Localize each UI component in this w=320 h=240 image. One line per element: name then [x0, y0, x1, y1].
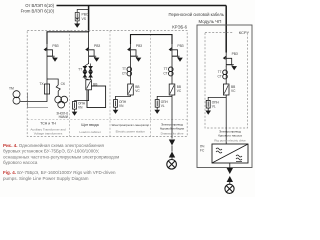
cabinet outline	[87, 86, 106, 108]
disconnector QS5 (РВЗ) module	[223, 53, 237, 71]
svg-text:Переносной силовой кабель: Переносной силовой кабель	[168, 12, 224, 17]
svg-text:Drawworks drive: Drawworks drive	[161, 132, 184, 136]
label: РВО / VS	[82, 13, 89, 21]
transformer T1 (ТМ)	[13, 91, 20, 104]
plug contacts X1 (withdrawable)	[83, 64, 92, 78]
breaker Q4 (ВВ)	[223, 84, 229, 95]
svg-text:Щит ввода: Щит ввода	[81, 123, 98, 127]
arrester FV4 (ОПН)	[155, 100, 159, 108]
wire: section 2 drop continuation	[88, 32, 90, 44]
disconnector QS3 (РВЗ) section 3	[127, 44, 141, 62]
wire: rejoin	[85, 77, 89, 79]
disconnector QS4 (РВЗ) section 4	[169, 44, 183, 62]
svg-text:РВЗ: РВЗ	[94, 44, 100, 48]
label: ПЧ FC	[200, 145, 205, 153]
svg-text:СК: СК	[61, 82, 65, 86]
motor M2 (mud pump)	[225, 184, 234, 193]
wire: label zone separator	[27, 119, 187, 121]
ground: arrester FV4	[154, 107, 160, 114]
label: ТТ CT	[163, 67, 167, 75]
ground: arrester FV3	[113, 107, 119, 114]
svg-text:Voltage transformers: Voltage transformers	[34, 132, 63, 136]
arrester FV1 (РВО/VS) on bus tap	[75, 10, 88, 21]
svg-text:ТТ: ТТ	[78, 67, 82, 71]
label: ОПН VN	[78, 102, 86, 110]
wire: section separator 3	[150, 31, 152, 137]
disconnector QS1 (РВЗ) section 1	[44, 44, 58, 62]
svg-text:оснащенных частотно-регулируем: оснащенных частотно-регулируемым электро…	[3, 154, 119, 159]
ground: arrester FV1 ground	[74, 21, 80, 28]
svg-text:VC: VC	[177, 89, 182, 93]
label: ОПН VL	[212, 101, 220, 109]
label: ВВ VC	[135, 85, 140, 93]
label: ТТ CT	[122, 67, 126, 75]
arrester FV2 (ОПН)	[73, 102, 77, 110]
current transformer TA3 (ТТ/СТ)	[223, 70, 228, 79]
ground: arrester FV2	[72, 109, 78, 116]
svg-text:ТТ: ТТ	[164, 67, 168, 71]
connector X2 (plug pair)	[169, 140, 175, 160]
svg-text:VC: VC	[231, 89, 236, 93]
svg-text:ТМ: ТМ	[9, 87, 14, 91]
wire: output and arrester branch	[157, 96, 172, 99]
wire: vertical drop to switchgear	[88, 6, 90, 33]
svg-text:КСРУ: КСРУ	[239, 30, 250, 35]
node: switchgear dashed enclosure	[27, 31, 187, 137]
svg-text:РВЗ: РВЗ	[177, 44, 183, 48]
label: ТТ CT	[218, 70, 222, 78]
svg-text:СТ: СТ	[218, 74, 222, 78]
fuse FU2 (СК)	[56, 85, 60, 96]
wire: fuse output to TM transformer	[20, 94, 47, 102]
converter U1 (ПЧ/FC VFD)	[212, 144, 248, 163]
wire: section 4 column	[171, 59, 173, 85]
svg-text:КРЭБ-6: КРЭБ-6	[172, 25, 187, 30]
svg-text:pumps. Single Line Power Suppl: pumps. Single Line Power Supply Diagram	[3, 176, 89, 181]
breaker Q3 (ВВ)	[169, 84, 175, 95]
wire: section 2 column upper	[88, 59, 90, 65]
wire: section separator 2	[109, 31, 111, 137]
wire: bus segment feeding sections 1-2	[47, 32, 89, 44]
wire: section separator 1	[69, 31, 71, 137]
svg-text:РВЗ: РВЗ	[52, 44, 58, 48]
svg-text:Load-in cabinet: Load-in cabinet	[79, 130, 100, 134]
svg-text:СТ: СТ	[122, 71, 126, 75]
svg-text:Electric power station: Electric power station	[116, 130, 146, 134]
fuse FU1 (ТХ)	[44, 84, 49, 94]
svg-text:СТ: СТ	[163, 71, 167, 75]
wire: section 1 column	[46, 59, 48, 85]
wire: arrester branch	[208, 97, 226, 100]
caption	[3, 142, 119, 181]
wire: VFD output	[229, 163, 231, 169]
svg-text:VN: VN	[119, 104, 124, 108]
connector X3 (plug pair)	[227, 168, 233, 185]
svg-text:VL: VL	[212, 105, 216, 109]
node: КСРУ dashed enclosure	[205, 33, 248, 129]
current transformer TA2 (ТТ/СТ)	[169, 67, 174, 76]
wire: auxiliary secondary run	[28, 93, 49, 108]
current transformer TA1 (ТТ/СТ)	[127, 67, 132, 76]
svg-text:НАМИ: НАМИ	[59, 115, 69, 119]
svg-text:бурового насоса: бурового насоса	[3, 160, 38, 165]
svg-text:буровых установок БУ-75БрЭ, БУ: буровых установок БУ-75БрЭ, БУ-1600/1000…	[3, 149, 99, 154]
ground: arrester FV5	[205, 108, 211, 115]
wire: section 4 output down	[171, 95, 173, 139]
disconnector QS2 (РВЗ) section 2	[85, 44, 99, 62]
voltage transformer TV1 (ЗНОЛ-6 НАМИ)	[55, 96, 68, 108]
svg-text:VS: VS	[82, 17, 87, 21]
svg-text:From ВЛЭП 6(10): From ВЛЭП 6(10)	[21, 9, 55, 14]
svg-text:РВЗ: РВЗ	[232, 52, 238, 56]
svg-text:VC: VC	[135, 89, 140, 93]
wire: bus segment feeding sections 3-4	[131, 35, 173, 44]
svg-text:бурового насоса: бурового насоса	[218, 133, 242, 137]
svg-text:буровой лебедки: буровой лебедки	[160, 126, 185, 130]
wire: portable power cable drop to VFD module	[225, 6, 227, 53]
node: incoming line label	[21, 3, 55, 14]
svg-text:ТТ: ТТ	[218, 70, 222, 74]
label: ВВ VC	[231, 85, 236, 93]
svg-text:VN: VN	[78, 106, 83, 110]
label: ЗНОЛ-6 НАМИ	[56, 111, 68, 119]
breaker Q1 (ВВ)	[86, 80, 92, 90]
label: ОПН VN	[119, 100, 127, 108]
svg-text:FC: FC	[200, 149, 205, 153]
breaker Q2 (ВВ)	[128, 84, 134, 95]
svg-text:ТСН и ТН: ТСН и ТН	[40, 122, 56, 126]
arrester FV5 (ОПН)	[206, 100, 210, 108]
wire: breaker output to arrester	[116, 95, 131, 100]
svg-text:VL: VL	[161, 104, 165, 108]
label: VFD input waves	[216, 148, 222, 153]
label: ВВ VC	[177, 85, 182, 93]
svg-text:От ВЛЭП 6(10): От ВЛЭП 6(10)	[25, 3, 54, 8]
wire: branch to voltage transformer	[47, 79, 58, 85]
svg-text:ТТ: ТТ	[122, 67, 126, 71]
wire: module column	[225, 67, 227, 85]
svg-text:Рис. 4. Однолинейная схема эле: Рис. 4. Однолинейная схема электроснабже…	[3, 142, 104, 148]
svg-text:Электроагрегат-генератор: Электроагрегат-генератор	[111, 123, 149, 127]
wire: top 6kV bus	[57, 5, 227, 7]
wire: module column to VFD	[225, 95, 227, 144]
node: module enclosure	[197, 25, 252, 168]
svg-text:Rig pump electric drive: Rig pump electric drive	[214, 139, 246, 143]
svg-text:Fig. 4. БУ-75БрЭ, БУ-1600/1000: Fig. 4. БУ-75БрЭ, БУ-1600/1000У Rigs wit…	[3, 170, 116, 175]
svg-text:Модуль ЧП: Модуль ЧП	[199, 19, 222, 24]
svg-text:ТХ: ТХ	[39, 82, 44, 86]
wire: breaker output	[75, 90, 89, 102]
label: VFD output waves	[236, 155, 242, 162]
arrester FV3 (ОПН)	[114, 100, 118, 108]
label: ОПН VL	[161, 100, 169, 108]
label: КСРУ	[234, 30, 250, 35]
motor M1 (drawworks)	[167, 160, 177, 170]
wire: section 3 column	[130, 59, 132, 85]
svg-text:РВЗ: РВЗ	[136, 44, 142, 48]
